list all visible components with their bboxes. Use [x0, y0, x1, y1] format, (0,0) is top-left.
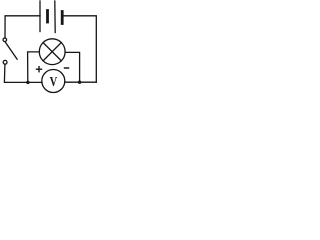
battery B1 short plate 2 — [61, 12, 64, 24]
junction node right — [78, 81, 81, 84]
battery B1 long plate 2 — [54, 1, 56, 33]
junction node left — [26, 81, 29, 84]
battery B1 long plate 1 — [39, 1, 41, 32]
battery B1 short plate 1 — [46, 11, 49, 23]
wire top-left — [5, 16, 40, 38]
lamp L1 cross leg 1 — [43, 43, 61, 61]
label + — [36, 66, 42, 72]
wire bottom-left — [4, 64, 42, 82]
wire bottom-right — [65, 81, 97, 83]
switch S1 top terminal — [3, 38, 7, 42]
voltmeter V1 circle — [42, 70, 65, 93]
lamp L1 cross leg 2 — [43, 43, 61, 61]
lamp L1 circle — [39, 39, 65, 65]
wire lamp left down — [28, 52, 40, 83]
wire lamp right down — [65, 52, 80, 82]
label minus — [64, 67, 69, 69]
switch S1 blade — [5, 42, 17, 59]
wire top-right — [63, 16, 96, 82]
switch S1 bottom terminal — [3, 60, 7, 64]
svg-text:V: V — [50, 74, 58, 90]
